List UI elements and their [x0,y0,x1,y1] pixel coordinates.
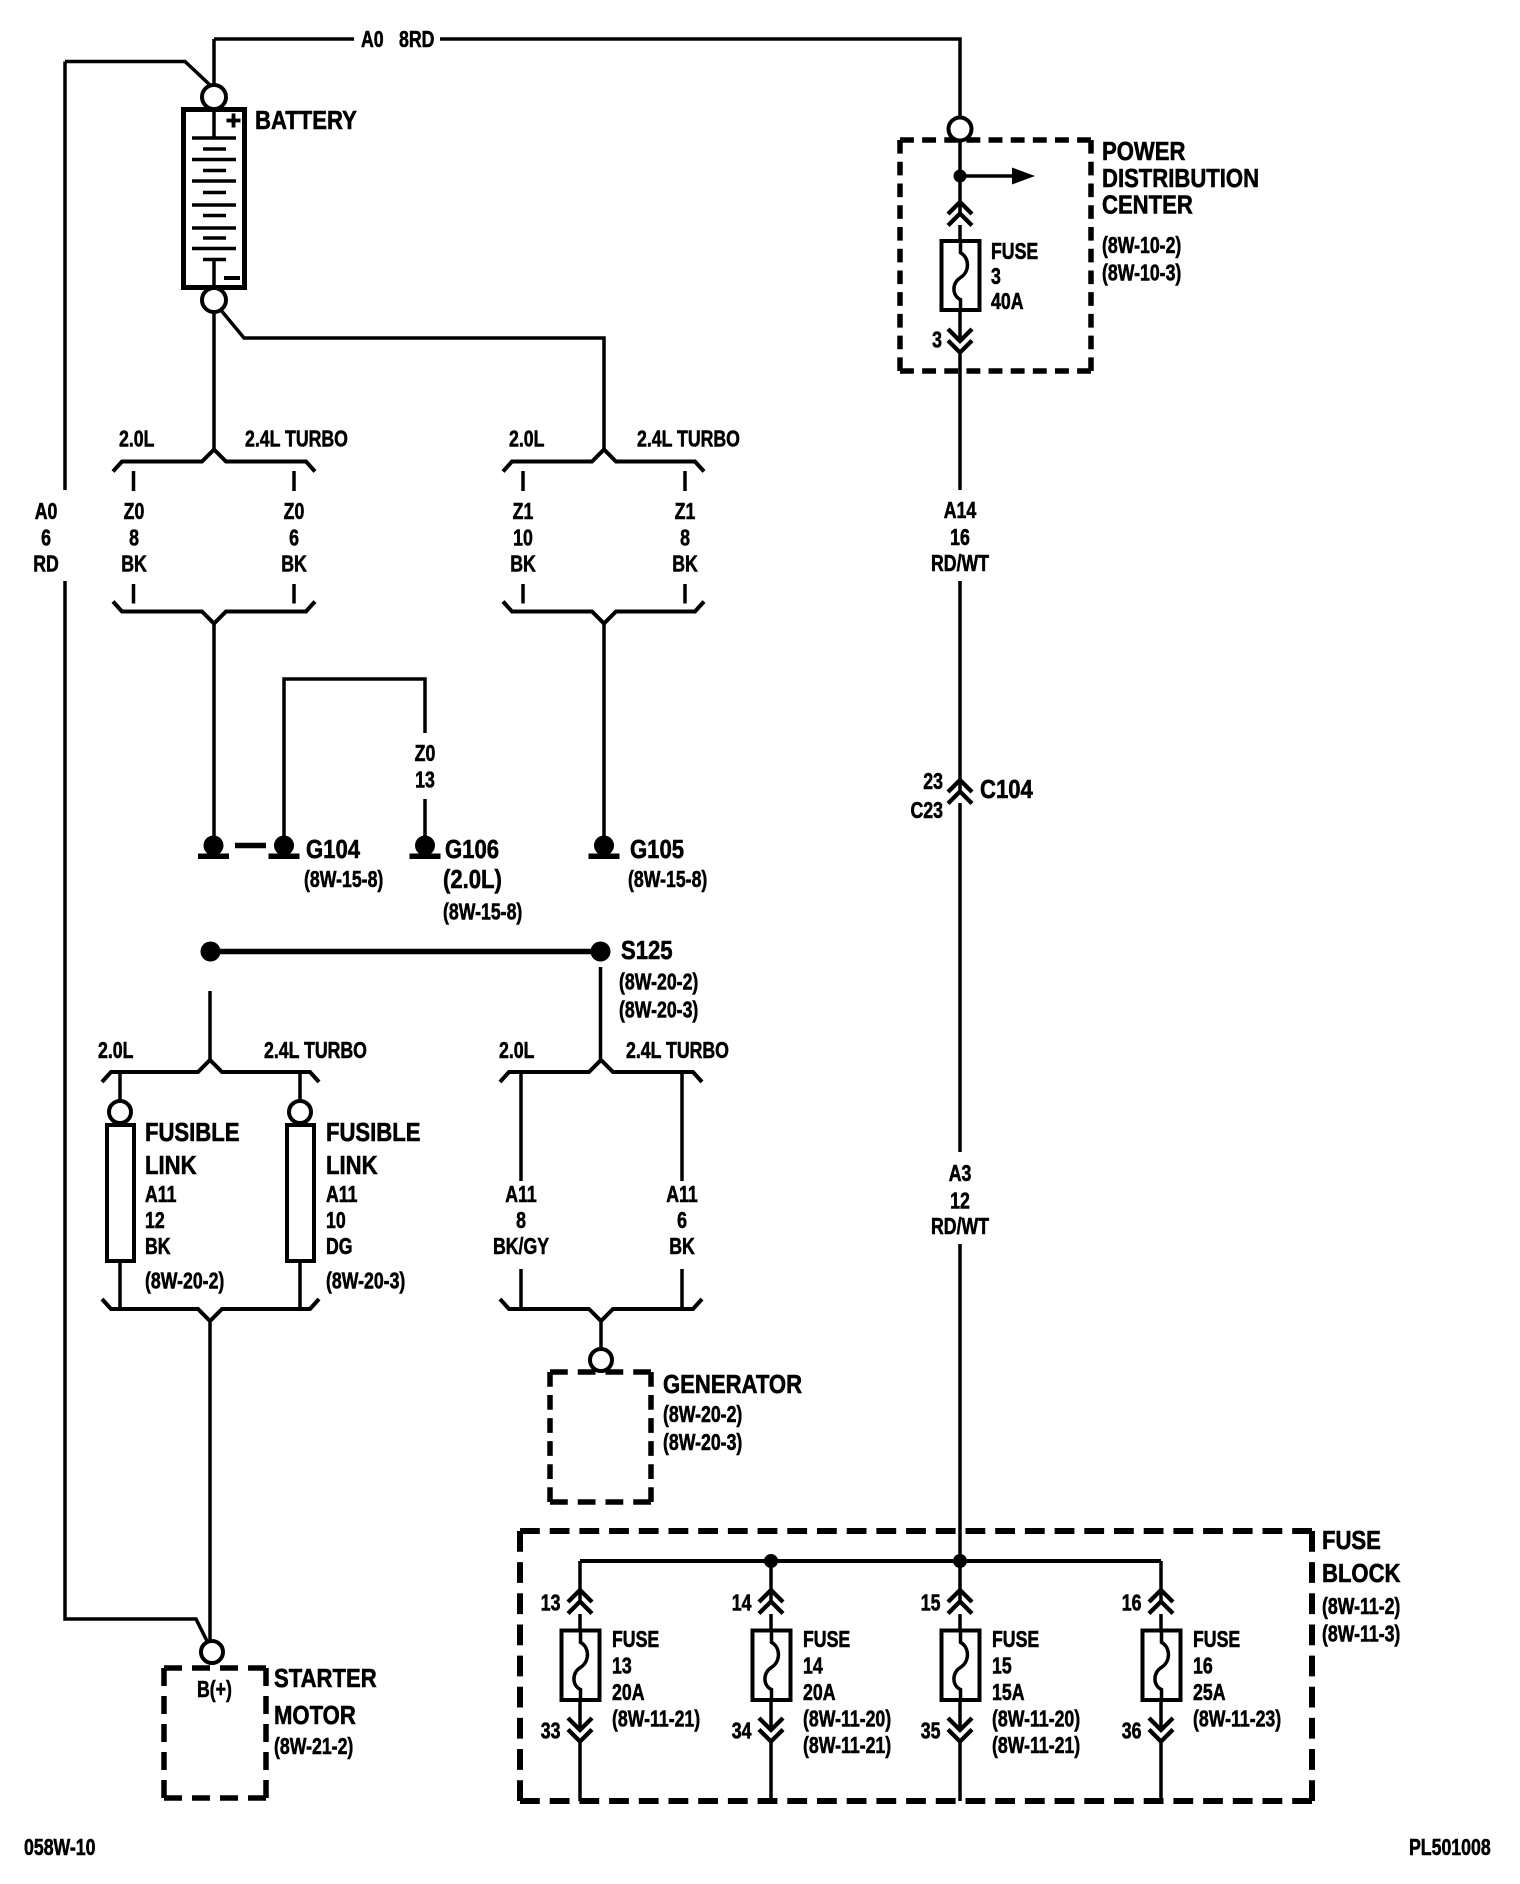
svg-text:12: 12 [145,1208,165,1234]
wire A11 2.4L branch upper [680,1073,684,1181]
label fuse 15 ref2 [992,1733,1080,1759]
wire S125 to generator split [599,967,603,1060]
node bus junction at fuse 14 [764,1554,778,1568]
svg-text:FUSE: FUSE [991,239,1038,265]
svg-text:DG: DG [326,1234,353,1260]
svg-text:RD: RD [33,551,59,577]
svg-text:2.0L: 2.0L [98,1038,133,1064]
svg-text:Z1: Z1 [513,499,534,525]
fuse 3 40A (PDC) [942,241,980,310]
wire A14 lower segment [958,581,962,792]
label gauge 10 [513,525,533,551]
label G106 [445,835,499,864]
connector chevrons pin 14 [759,1590,783,1614]
ground symbol left (to G104) [198,836,229,860]
label pin 34 [732,1718,752,1744]
node PDC junction [954,170,967,183]
label G105 [630,835,684,864]
connector chevrons pin 15 [948,1590,972,1614]
label BK fusible left [145,1234,171,1260]
svg-text:13: 13 [612,1653,632,1679]
label DG fusible right [326,1234,353,1260]
label Z0 left [124,499,145,525]
wire Z0 to ground G104 area [212,624,216,846]
ground G105 [589,836,620,860]
splice S125 right dot [591,942,611,962]
connector chevrons out of PDC [948,329,972,353]
label G104 [306,835,361,864]
label fuse number 13 [612,1653,632,1679]
label 2.0L lower right [499,1038,534,1064]
wire into fuse 16 [1159,1614,1163,1630]
label fuse number 16 [1193,1653,1213,1679]
svg-text:(8W-20-3): (8W-20-3) [326,1268,405,1294]
label pin 23 [923,769,943,795]
wire A14 upper segment [958,353,962,490]
svg-text:12: 12 [950,1188,970,1214]
svg-text:MOTOR: MOTOR [274,1701,356,1730]
wire fuse 14 output drop [769,1741,773,1801]
svg-text:BK/GY: BK/GY [493,1234,549,1260]
wire battery positive to starter branch [65,62,210,86]
svg-text:2.0L: 2.0L [119,426,154,452]
wire A11 2.0L branch upper [519,1073,523,1181]
wire battery negative to left split [212,312,216,450]
svg-text:C23: C23 [911,798,943,824]
svg-text:Z0: Z0 [124,499,145,525]
svg-text:10: 10 [513,525,533,551]
label wire gauge 6 left col [41,525,51,551]
label fuse 16 ref1 [1193,1706,1281,1732]
svg-text:(8W-10-3): (8W-10-3) [1102,260,1181,286]
fusible link 2.4L eyelet [289,1101,311,1123]
label pin 13 [541,1590,561,1616]
label Z1 right [675,499,696,525]
fuse 16 (25A) [1143,1631,1181,1701]
wire Z1 2.4L branch tick bottom [683,584,687,604]
label PDC ref1 [1102,233,1181,259]
svg-text:(8W-20-2): (8W-20-2) [619,969,698,995]
label fuse rating 15A [992,1680,1025,1706]
svg-text:33: 33 [541,1718,561,1744]
label BK right [281,551,307,577]
split brace bottom (Z0 merge) [113,602,315,624]
label FUSE (PDC) [991,239,1038,265]
label Z0 right [284,499,305,525]
split brace top (fusible links) [102,1060,319,1082]
svg-text:3: 3 [932,327,942,353]
wire Z1 to ground G105 [602,624,606,846]
label LINK right [326,1151,378,1180]
split brace top (battery negative Z0) [113,450,315,472]
label 2.4L TURBO upper left [245,426,348,452]
label wire A0 8RD part1 [361,27,384,53]
svg-text:058W-10: 058W-10 [24,1835,95,1861]
svg-text:(8W-21-2): (8W-21-2) [274,1734,353,1760]
svg-text:36: 36 [1122,1718,1142,1744]
wire dash between grounds [235,843,266,849]
wire battery negative to right split [220,309,604,450]
svg-text:(8W-20-3): (8W-20-3) [663,1430,742,1456]
svg-text:3: 3 [991,264,1001,290]
fuse 13 (20A) [562,1631,600,1701]
label FUSE f15 [992,1627,1039,1653]
svg-text:FUSE: FUSE [803,1627,850,1653]
label pin 35 [921,1718,941,1744]
wire into fuse 15 [958,1614,962,1630]
label FUSIBLE left [145,1118,239,1147]
label 2.4L TURBO upper right [637,426,740,452]
svg-text:23: 23 [923,769,943,795]
label gauge 6 right [289,525,299,551]
svg-text:(8W-20-3): (8W-20-3) [619,997,698,1023]
wire A11 2.4L branch lower [680,1269,684,1309]
power distribution center box [900,140,1091,371]
fusible link 2.0L body [107,1125,134,1261]
wire Z1 2.0L branch tick top [521,471,525,491]
wire bus drop to fuse 13 [578,1561,582,1602]
svg-text:16: 16 [1122,1590,1142,1616]
label G105 ref [628,867,707,893]
svg-text:13: 13 [541,1590,561,1616]
svg-text:(8W-15-8): (8W-15-8) [443,899,522,925]
svg-text:2.0L: 2.0L [499,1038,534,1064]
label gauge 8 z1 [680,525,690,551]
svg-text:BK: BK [121,551,147,577]
label A11 gen left [505,1182,537,1208]
label fuse 14 ref2 [803,1733,891,1759]
label PDC ref2 [1102,260,1181,286]
svg-text:16: 16 [950,525,970,551]
label fuse rating 25A [1193,1680,1226,1706]
svg-text:FUSE: FUSE [1193,1627,1240,1653]
svg-text:15: 15 [921,1590,941,1616]
label generator ref2 [663,1430,742,1456]
wire Z0 2.4L branch tick top [292,471,296,491]
label FUSE BLOCK line2 [1322,1559,1401,1588]
svg-text:15: 15 [992,1653,1012,1679]
svg-text:Z1: Z1 [675,499,696,525]
svg-text:(8W-11-21): (8W-11-21) [612,1706,700,1732]
splice S125 bar [211,949,601,955]
arrow PDC bus tap [966,168,1035,185]
svg-text:G105: G105 [630,835,684,864]
svg-text:G104: G104 [306,835,361,864]
svg-text:BK: BK [669,1234,695,1260]
svg-text:GENERATOR: GENERATOR [663,1370,802,1399]
svg-text:(8W-11-3): (8W-11-3) [1322,1621,1400,1647]
svg-text:2.4L TURBO: 2.4L TURBO [245,426,348,452]
wire out of fuse 15 [958,1700,962,1730]
label color RD/WT [931,551,989,577]
label gauge 12 [950,1188,970,1214]
label BK/GY [493,1234,549,1260]
svg-text:(8W-15-8): (8W-15-8) [628,867,707,893]
generator terminal eyelet [590,1349,612,1371]
label FUSIBLE right [326,1118,420,1147]
label BK left [121,551,147,577]
svg-text:(8W-20-2): (8W-20-2) [145,1268,224,1294]
label FUSE f16 [1193,1627,1240,1653]
svg-text:20A: 20A [612,1680,645,1706]
label wire A0 8RD part2 [399,27,434,53]
svg-text:A11: A11 [666,1182,698,1208]
connector chevrons pin 36 [1149,1718,1173,1742]
wire S125 to fusible link split [208,991,212,1060]
label wire color RD left col [33,551,59,577]
svg-text:STARTER: STARTER [274,1664,377,1693]
svg-text:FUSE: FUSE [612,1627,659,1653]
svg-text:FUSE: FUSE [992,1627,1039,1653]
svg-text:(8W-15-8): (8W-15-8) [304,867,383,893]
svg-text:20A: 20A [803,1680,836,1706]
svg-text:8: 8 [516,1208,526,1234]
wire A0 top run left segment [214,37,354,41]
fuse block box [520,1531,1312,1801]
svg-text:6: 6 [41,525,51,551]
svg-text:(8W-11-20): (8W-11-20) [803,1706,891,1732]
svg-text:FUSIBLE: FUSIBLE [326,1118,420,1147]
starter motor box [164,1668,266,1798]
svg-text:G106: G106 [445,835,499,864]
label fusible left ref [145,1268,224,1294]
battery internal plates [192,107,236,290]
svg-text:(8W-11-21): (8W-11-21) [992,1733,1080,1759]
svg-text:BATTERY: BATTERY [255,106,357,135]
wire fuse 16 output drop [1159,1741,1163,1801]
label FUSE f14 [803,1627,850,1653]
wire Z0 2.0L branch tick bottom [132,584,136,604]
label fuse number 3 [991,264,1001,290]
label S125 [621,936,673,965]
svg-text:(8W-11-20): (8W-11-20) [992,1706,1080,1732]
wire fuse 15 output drop [958,1741,962,1801]
split brace bottom (generator merge) [500,1299,702,1321]
wire Z0 13 jumper [284,679,425,845]
svg-text:DISTRIBUTION: DISTRIBUTION [1102,164,1259,193]
svg-text:BK: BK [145,1234,171,1260]
svg-text:6: 6 [677,1208,687,1234]
wire below fusible link 2.0L [118,1263,122,1309]
fusible link 2.0L eyelet [109,1101,131,1123]
svg-text:FUSIBLE: FUSIBLE [145,1118,239,1147]
label S125 ref1 [619,969,698,995]
label fuse rating 20A [612,1680,645,1706]
split brace top (battery negative Z1) [503,450,704,472]
label fuse block ref1 [1322,1594,1400,1620]
connector chevrons pin 35 [948,1718,972,1742]
wire fuse 3 output [958,310,962,341]
wire A0 top run right segment [440,39,960,118]
label GENERATOR [663,1370,802,1399]
label gauge 8 left [129,525,139,551]
split brace bottom (fusible links merge) [102,1299,319,1321]
wire A11 2.0L branch lower [519,1269,523,1309]
svg-text:16: 16 [1193,1653,1213,1679]
label S125 ref2 [619,997,698,1023]
label A11 gen right [666,1182,698,1208]
fusible link 2.4L body [287,1125,314,1261]
svg-text:A11: A11 [505,1182,537,1208]
generator box [550,1372,651,1502]
svg-text:S125: S125 [621,936,673,965]
label 10 right [326,1208,346,1234]
wire A0 battery positive riser [212,39,216,86]
battery negative terminal eyelet [202,288,226,312]
battery plus terminal mark [227,114,241,128]
label 8 gen left [516,1208,526,1234]
PDC battery feed eyelet [949,118,972,141]
label fuse 13 ref1 [612,1706,700,1732]
battery B1 outline [184,110,245,288]
svg-text:BK: BK [672,551,698,577]
wire to generator terminal [599,1321,603,1350]
svg-text:(8W-10-2): (8W-10-2) [1102,233,1181,259]
connector chevrons pin 34 [759,1718,783,1742]
label Z1 left [513,499,534,525]
svg-text:RD/WT: RD/WT [931,1214,989,1240]
label STARTER [274,1664,377,1693]
wire Z0 13 lower segment [423,799,427,845]
wire A0 left drop upper segment [63,62,67,491]
fuse block bus bar [580,1559,1161,1563]
wire Z1 2.4L branch tick top [683,471,687,491]
svg-text:A14: A14 [944,498,977,524]
label drawing number [1409,1835,1491,1861]
label Z0 13 gauge [415,767,435,793]
label G104 ref [304,867,383,893]
node bus junction at fuse 15 [953,1554,967,1568]
wire fusible link 2.4L stub [298,1073,302,1101]
split brace top (generator A11) [500,1060,702,1082]
wire Z1 2.0L branch tick bottom [521,584,525,604]
svg-text:2.4L TURBO: 2.4L TURBO [637,426,740,452]
svg-text:BLOCK: BLOCK [1322,1559,1401,1588]
label BK gen right [669,1234,695,1260]
starter motor B+ eyelet [201,1641,223,1663]
battery positive terminal eyelet [202,85,226,109]
fuse 14 (20A) [753,1631,791,1701]
svg-text:6: 6 [289,525,299,551]
label fuse rating 20A [803,1680,836,1706]
label BK z1 right [672,551,698,577]
svg-text:(2.0L): (2.0L) [443,865,502,894]
label Z0 13 circuit [415,741,436,767]
fuse 15 (15A) [942,1631,980,1701]
label starter ref [274,1734,353,1760]
label 2.0L upper left [119,426,154,452]
svg-text:2.4L TURBO: 2.4L TURBO [626,1038,729,1064]
svg-text:A3: A3 [949,1161,972,1187]
wire fuse 13 output drop [578,1741,582,1801]
battery minus terminal mark [224,276,240,280]
label fuse number 14 [803,1653,823,1679]
label 2.4L TURBO lower left [264,1038,367,1064]
svg-text:B(+): B(+) [197,1677,232,1703]
svg-text:CENTER: CENTER [1102,191,1193,220]
ground G106 [410,836,441,860]
label pin 33 [541,1718,561,1744]
label CENTER [1102,191,1193,220]
label pin C23 [911,798,943,824]
svg-text:25A: 25A [1193,1680,1226,1706]
svg-text:15A: 15A [992,1680,1025,1706]
wire into fuse 14 [769,1614,773,1630]
svg-text:Z0: Z0 [415,741,436,767]
svg-text:2.4L TURBO: 2.4L TURBO [264,1038,367,1064]
svg-text:RD/WT: RD/WT [931,551,989,577]
svg-text:2.0L: 2.0L [509,426,544,452]
ground G104 [269,836,300,860]
svg-text:(8W-11-23): (8W-11-23) [1193,1706,1281,1732]
svg-text:(8W-11-2): (8W-11-2) [1322,1594,1400,1620]
connector chevrons into fuse 3 [948,202,972,226]
svg-text:8: 8 [129,525,139,551]
connector C104 chevrons [948,780,972,804]
label pin 15 [921,1590,941,1616]
label DISTRIBUTION [1102,164,1259,193]
wire PDC internal feed [958,141,962,214]
label fuse number 15 [992,1653,1012,1679]
label fuse rating 40A [991,289,1024,315]
svg-text:A11: A11 [326,1182,358,1208]
label circuit A3 [949,1161,972,1187]
label 6 gen right [677,1208,687,1234]
label POWER [1102,137,1185,166]
label A11 left [145,1182,177,1208]
wire Z0 2.4L branch tick bottom [292,584,296,604]
label pin 3 [932,327,942,353]
svg-text:PL501008: PL501008 [1409,1835,1491,1861]
svg-text:(8W-20-2): (8W-20-2) [663,1402,742,1428]
label BK z1 left [510,551,536,577]
svg-text:13: 13 [415,767,435,793]
svg-text:14: 14 [732,1590,752,1616]
label pin 16 [1122,1590,1142,1616]
svg-text:BK: BK [281,551,307,577]
wire out of fuse 13 [578,1700,582,1730]
wire below fusible link 2.4L [298,1263,302,1309]
label 2.0L lower left [98,1038,133,1064]
wire A0 left drop lower segment [65,581,209,1645]
svg-text:(8W-11-21): (8W-11-21) [803,1733,891,1759]
wire into fuse 13 [578,1614,582,1630]
label gauge 16 [950,525,970,551]
svg-text:POWER: POWER [1102,137,1185,166]
connector chevrons pin 13 [568,1590,592,1614]
label circuit A14 [944,498,977,524]
splice S125 left dot [201,942,221,962]
svg-text:40A: 40A [991,289,1024,315]
connector chevrons pin 16 [1149,1590,1173,1614]
svg-text:8: 8 [680,525,690,551]
label fuse 14 ref1 [803,1706,891,1732]
label 12 left [145,1208,165,1234]
svg-text:14: 14 [803,1653,823,1679]
svg-text:34: 34 [732,1718,752,1744]
label FUSE BLOCK line1 [1322,1526,1381,1555]
svg-text:BK: BK [510,551,536,577]
wire bus drop to fuse 16 [1159,1561,1163,1602]
label fuse block ref2 [1322,1621,1400,1647]
svg-text:8RD: 8RD [399,27,434,53]
wire chevron to fuse 3 [958,225,962,241]
svg-text:FUSE: FUSE [1322,1526,1381,1555]
wire out of fuse 14 [769,1700,773,1730]
label G106 2.0L [443,865,502,894]
label 2.4L TURBO lower right [626,1038,729,1064]
wire out of fuse 16 [1159,1700,1163,1730]
